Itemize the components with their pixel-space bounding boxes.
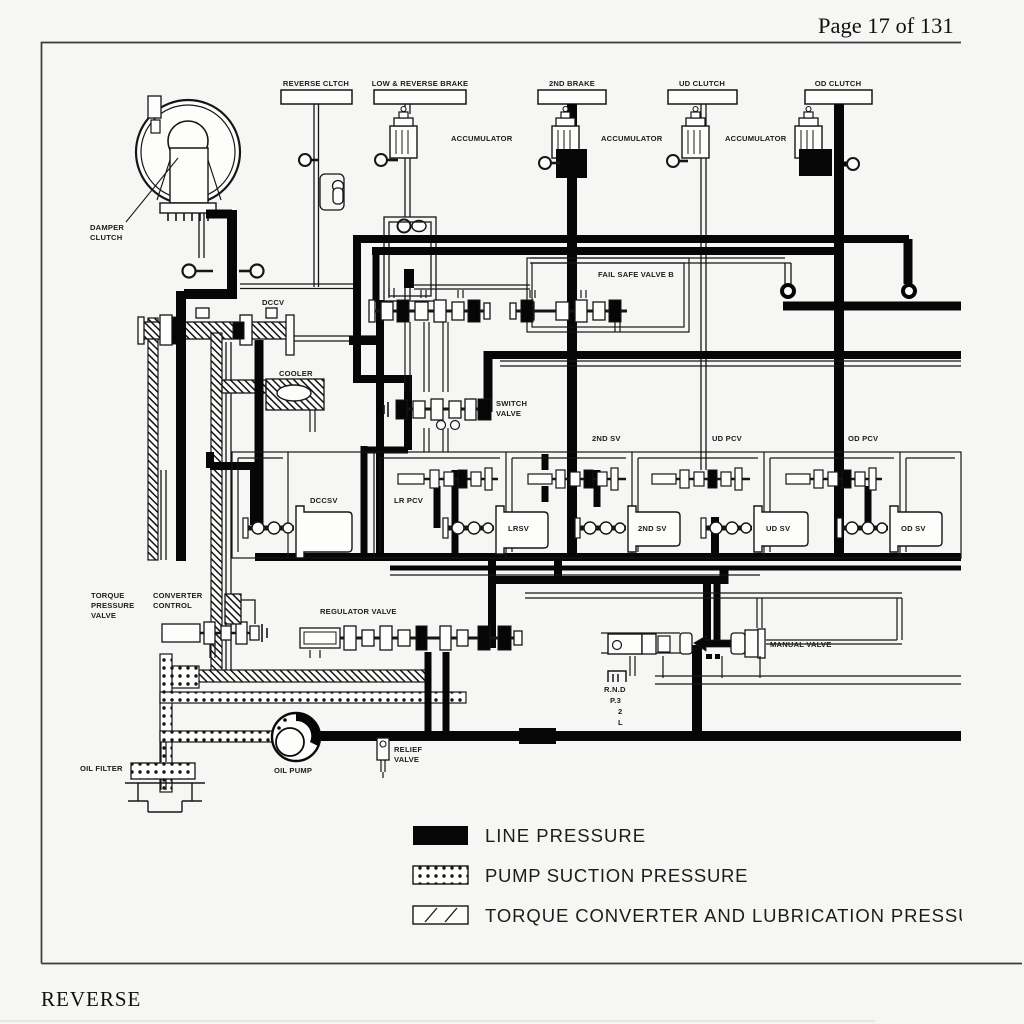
wire thick feed to DCCSV — [210, 452, 258, 525]
solenoid connector OD SV — [837, 518, 888, 538]
leader line damper clutch — [126, 158, 178, 222]
converter control upper link — [225, 594, 255, 624]
wire UD clutch line (thin double) — [701, 104, 706, 470]
svg-text:2ND BRAKE: 2ND BRAKE — [549, 79, 595, 88]
wire stub x724 below row — [720, 566, 729, 584]
wire black stub above train A — [404, 269, 414, 288]
wire V x376 — [373, 247, 380, 302]
relief valve — [377, 738, 389, 778]
svg-text:TORQUE: TORQUE — [91, 591, 125, 600]
blob on bottom line — [519, 728, 556, 744]
svg-text:CONTROL: CONTROL — [153, 601, 192, 610]
wire V x868 — [865, 486, 872, 523]
left case walls (double verticals) — [161, 342, 231, 678]
wire corner down to ball — [904, 239, 913, 284]
wire V x715 — [711, 517, 719, 559]
svg-text:Page 17 of 131: Page 17 of 131 — [818, 13, 954, 38]
accumulator OD — [795, 107, 822, 159]
svg-text:OD PCV: OD PCV — [848, 434, 879, 443]
wire OD clutch line (thick) — [834, 104, 844, 557]
wire stub x558 — [554, 557, 562, 578]
wire reverse clutch line (thin double) — [240, 104, 355, 289]
svg-text:OD SV: OD SV — [901, 524, 926, 533]
svg-text:COOLER: COOLER — [279, 369, 313, 378]
legend torque converter swatch — [413, 906, 468, 924]
svg-text:LOW & REVERSE BRAKE: LOW & REVERSE BRAKE — [372, 79, 469, 88]
black blob OD accumulator outlet — [799, 149, 832, 176]
svg-text:REGULATOR VALVE: REGULATOR VALVE — [320, 607, 397, 616]
svg-text:DCCV: DCCV — [262, 298, 285, 307]
wire H y355 — [484, 351, 961, 359]
fail safe valve B box — [527, 258, 689, 332]
wire y568 — [390, 566, 961, 571]
torque pressure valve spool train — [162, 622, 267, 658]
svg-text:ACCUMULATOR: ACCUMULATOR — [601, 134, 663, 143]
label box REVERSE CLTCH — [281, 90, 352, 104]
wire low&reverse brake line (thin double) — [405, 104, 410, 300]
solenoid valve row section frames — [232, 452, 961, 558]
svg-text:REVERSE: REVERSE — [41, 987, 141, 1011]
black blob 2ND accumulator outlet — [556, 149, 587, 178]
wire below cooler — [310, 410, 315, 432]
svg-text:MANUAL VALVE: MANUAL VALVE — [770, 640, 831, 649]
ball pin 2ND accumulator — [539, 157, 560, 169]
wire V x488 to switch valve — [484, 351, 493, 412]
wire H y580 — [488, 576, 720, 584]
wire V x492 to regulator — [488, 557, 496, 648]
wire V x455 — [452, 470, 459, 559]
wire V x597 — [594, 470, 601, 507]
regulator valve spool train — [300, 626, 522, 658]
wire elbow y379 — [353, 375, 408, 383]
solenoid connector UD SV — [701, 518, 752, 538]
svg-text:SWITCH: SWITCH — [496, 399, 527, 408]
svg-text:R.N.D: R.N.D — [604, 685, 626, 694]
suction junction block — [171, 666, 199, 688]
svg-text:OD CLUTCH: OD CLUTCH — [815, 79, 862, 88]
svg-text:UD PCV: UD PCV — [712, 434, 743, 443]
accumulator UD — [682, 107, 709, 159]
stub to ball pin OD — [838, 162, 849, 167]
legend label TORQUE CONVERTER AND LUBRICATION PRESSURE — [485, 905, 1000, 926]
svg-text:LINE PRESSURE: LINE PRESSURE — [485, 825, 646, 846]
label box LOW & REVERSE BRAKE — [374, 90, 466, 104]
suction line to pump — [160, 731, 273, 742]
svg-text:PRESSURE: PRESSURE — [91, 601, 134, 610]
svg-text:DCCSV: DCCSV — [310, 496, 338, 505]
fail safe valve A spool train — [369, 288, 490, 322]
svg-text:RELIEF: RELIEF — [394, 745, 422, 754]
svg-text:REVERSE CLTCH: REVERSE CLTCH — [283, 79, 349, 88]
accumulator 2ND — [552, 107, 579, 159]
switch valve spool train — [384, 399, 491, 430]
svg-text:DAMPER: DAMPER — [90, 223, 124, 232]
wire V x181 main left drop — [176, 291, 186, 561]
svg-text:FAIL SAFE VALVE B: FAIL SAFE VALVE B — [598, 270, 674, 279]
svg-text:TORQUE CONVERTER AND LUBRICATI: TORQUE CONVERTER AND LUBRICATION PRESSUR… — [485, 905, 1000, 926]
ball pin OD accumulator — [847, 158, 859, 170]
legend pump suction swatch — [413, 866, 468, 884]
wire V x408 — [404, 375, 412, 450]
svg-text:ACCUMULATOR: ACCUMULATOR — [451, 134, 513, 143]
wire thin double into fail safe B — [414, 285, 530, 289]
wire stub to 2nd pcv — [542, 454, 549, 470]
DCCV valve (hatched spool bar) — [140, 322, 288, 339]
wire V x446 regulator drain — [443, 652, 450, 737]
svg-text:LR PCV: LR PCV — [394, 496, 424, 505]
hatched left case wall — [148, 318, 158, 560]
wire thin doubles below train A — [405, 322, 448, 452]
suction vertical bar — [160, 654, 172, 792]
UD PCV spool train — [652, 468, 750, 490]
svg-text:CLUTCH: CLUTCH — [90, 233, 122, 242]
wire bridge elbow — [349, 336, 379, 345]
ball pin left of reverse clutch line — [299, 154, 318, 166]
wire V x380 — [376, 300, 384, 559]
torque converter with damper clutch — [136, 96, 240, 258]
svg-text:VALVE: VALVE — [91, 611, 116, 620]
wire H2 y251 — [372, 247, 842, 255]
solenoid connector DCCSV — [243, 518, 294, 538]
svg-text:VALVE: VALVE — [394, 755, 419, 764]
svg-text:PUMP SUCTION PRESSURE: PUMP SUCTION PRESSURE — [485, 865, 748, 886]
wire row bottom y557 — [255, 553, 961, 561]
svg-text:2: 2 — [618, 707, 622, 716]
manual valve body outline — [630, 656, 760, 678]
OD PCV spool train — [786, 468, 882, 490]
svg-text:ACCUMULATOR: ACCUMULATOR — [725, 134, 787, 143]
check ball box on reverse clutch line — [320, 174, 344, 210]
wire double drop into manual valve — [703, 578, 711, 640]
hatched horizontal bar (converter/lube) — [198, 670, 426, 682]
wire thick from converter elbow down — [184, 210, 237, 295]
shift gate symbol — [608, 671, 626, 682]
svg-text:CONVERTER: CONVERTER — [153, 591, 203, 600]
ball pin left of converter drain — [183, 265, 214, 278]
wire V x437 — [434, 486, 441, 528]
solenoid connector LRSV — [443, 518, 494, 538]
wire H3 y306 right — [783, 302, 961, 311]
ball pin L&R accumulator — [375, 154, 398, 166]
svg-text:OIL PUMP: OIL PUMP — [274, 766, 312, 775]
svg-text:VALVE: VALVE — [496, 409, 521, 418]
svg-text:UD SV: UD SV — [766, 524, 791, 533]
solenoid connector 2ND SV — [575, 518, 626, 538]
label box OD CLUTCH — [805, 90, 872, 104]
wire V x259 dccv to dccsv — [255, 340, 264, 526]
ball on H3 left — [782, 285, 794, 297]
accumulator L&R — [390, 107, 417, 159]
wire H1 y239 — [353, 235, 909, 243]
svg-text:LRSV: LRSV — [508, 524, 530, 533]
solenoid OD SV body — [890, 506, 942, 552]
fail safe valve B spool train — [510, 290, 627, 332]
svg-text:L: L — [618, 718, 623, 727]
wire thin double to ball 788 — [530, 258, 791, 284]
solenoid 2ND SV body — [628, 506, 680, 552]
2ND PCV spool train — [528, 468, 626, 490]
svg-text:2ND SV: 2ND SV — [638, 524, 667, 533]
svg-text:OIL FILTER: OIL FILTER — [80, 764, 123, 773]
ball on H3 right — [903, 285, 915, 297]
manual valve spool train — [601, 629, 765, 659]
wire V x364 — [361, 446, 368, 559]
oil pump — [272, 713, 320, 761]
ball pin right of converter drain — [239, 265, 264, 278]
wire V x357 — [353, 235, 361, 379]
wire elbow y450 — [364, 447, 408, 454]
suction line to regulator — [160, 692, 466, 703]
solenoid UD SV body — [754, 506, 808, 552]
check ball box on L&R line — [384, 217, 436, 301]
solenoid DCCSV body — [296, 506, 352, 558]
svg-text:P.3: P.3 — [610, 696, 621, 705]
svg-text:UD CLUTCH: UD CLUTCH — [679, 79, 725, 88]
solenoid LRSV body — [496, 506, 548, 554]
lower thin double rails — [390, 575, 961, 684]
hatched vertical bar (converter feed) — [211, 333, 222, 678]
svg-text:2ND SV: 2ND SV — [592, 434, 621, 443]
wire main bottom line y736 — [318, 731, 961, 741]
main thick line-pressure network upper right — [181, 235, 961, 737]
cooler component — [222, 379, 324, 410]
label box UD CLUTCH — [668, 90, 737, 104]
legend line pressure swatch — [413, 826, 468, 845]
LR PCV spool train — [398, 468, 498, 490]
oil filter — [125, 742, 205, 812]
ball pin UD accumulator — [667, 155, 688, 167]
wire 2nd brake line (thick) — [567, 104, 577, 557]
label box 2ND BRAKE — [538, 90, 606, 104]
wire thin double y361 — [500, 361, 961, 366]
wire V x428 regulator drain — [425, 652, 432, 737]
wire V x697 manual valve to bottom — [692, 645, 702, 737]
